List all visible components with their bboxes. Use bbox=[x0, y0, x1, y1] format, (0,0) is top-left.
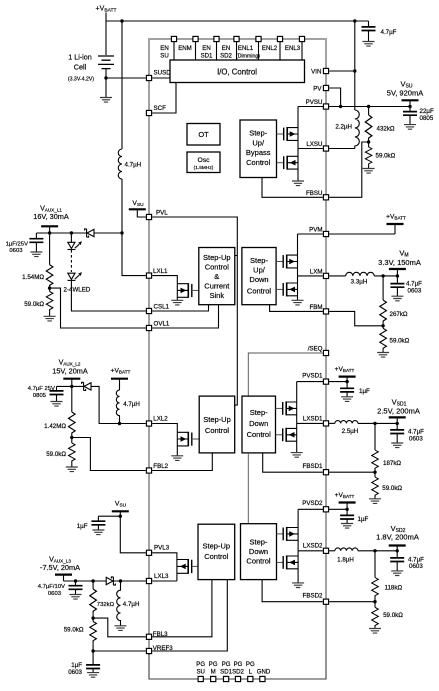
pin VREF3 bbox=[146, 648, 151, 653]
svg-text:Step-Up: Step-Up bbox=[203, 415, 231, 424]
pin ENL3 bbox=[299, 36, 304, 41]
svg-text:VIN: VIN bbox=[311, 69, 321, 76]
svg-text:PVM: PVM bbox=[309, 227, 322, 234]
resistor 59.0k (VM divider bottom) bbox=[382, 326, 384, 329]
junction VM divider tap bbox=[381, 274, 384, 277]
wire OVL1 feedback bbox=[50, 288, 146, 328]
svg-text:FBSD1: FBSD1 bbox=[303, 463, 324, 470]
junction FBM divider bbox=[381, 324, 384, 327]
svg-text:0603: 0603 bbox=[68, 669, 82, 676]
pin LXL1 bbox=[146, 273, 151, 278]
wire gate SU NMOS bbox=[277, 162, 284, 164]
wire gate M NMOS bbox=[276, 288, 283, 290]
svg-text:59.0kΩ: 59.0kΩ bbox=[383, 612, 403, 619]
LED D3 white LED string bottom bbox=[68, 272, 146, 311]
ground (1uF PVSD2) bbox=[341, 524, 353, 529]
svg-text:1µF: 1µF bbox=[77, 523, 88, 530]
svg-text:(Dimming): (Dimming) bbox=[236, 54, 260, 60]
svg-text:LXL1: LXL1 bbox=[153, 268, 168, 275]
svg-text:PG: PG bbox=[222, 661, 231, 668]
wire FBSU internal to control bbox=[262, 178, 323, 198]
resistor 59.0k (OVL1 divider bottom) bbox=[49, 288, 51, 291]
wire FBM feedback bbox=[329, 311, 383, 325]
pin FBSD1 bbox=[323, 470, 328, 475]
wire VIN bbox=[329, 70, 355, 72]
resistor 59.0k (VSD2 divider bottom) bbox=[374, 602, 376, 608]
wire LXSD1 internal bbox=[297, 422, 323, 424]
svg-text:1µF: 1µF bbox=[358, 516, 369, 523]
inductor 3.3uH (M) bbox=[346, 272, 374, 276]
junction FBL3 divider bbox=[91, 616, 94, 619]
junction VSD1 cap bbox=[396, 422, 399, 425]
wire VREF3 bbox=[93, 650, 146, 652]
transistor M NMOS (LXM-GND) bbox=[283, 276, 297, 300]
node VSD1 output terminal bbox=[389, 416, 406, 418]
wire PVL internal distribution bbox=[152, 217, 237, 405]
pin PG SU bbox=[198, 676, 203, 681]
svg-text:PVSD1: PVSD1 bbox=[302, 373, 323, 380]
svg-text:I/O, Control: I/O, Control bbox=[217, 68, 257, 77]
svg-text:Bypass: Bypass bbox=[246, 148, 271, 157]
wire pin ENL1 to I/O bbox=[258, 42, 260, 60]
wire LXM internal bbox=[298, 275, 323, 277]
svg-text:+VBATT: +VBATT bbox=[111, 368, 131, 375]
svg-text:+VBATT: +VBATT bbox=[335, 492, 355, 499]
capacitor 1uF 0603 (VREF3) bbox=[92, 651, 94, 673]
block Step-Down Control U-SD2 bbox=[241, 524, 277, 580]
svg-text:0805: 0805 bbox=[33, 393, 47, 399]
wire PVSU rail bbox=[298, 106, 410, 108]
svg-text:1.54MΩ: 1.54MΩ bbox=[22, 274, 44, 281]
svg-text:PG: PG bbox=[196, 661, 205, 668]
svg-text:2.5µH: 2.5µH bbox=[342, 428, 359, 435]
wire SUSD to battery return bbox=[106, 77, 146, 79]
wire PV to PVSU rail bbox=[329, 88, 340, 107]
wire FBL2 internal bbox=[152, 453, 212, 470]
ground (Q-L1 source) bbox=[171, 300, 183, 305]
svg-text:0603: 0603 bbox=[48, 591, 62, 597]
svg-text:118kΩ: 118kΩ bbox=[385, 585, 403, 592]
svg-text:Control: Control bbox=[247, 430, 272, 439]
svg-text:Down: Down bbox=[249, 547, 268, 556]
wire FBL3 internal bbox=[152, 580, 212, 637]
svg-text:16V, 30mA: 16V, 30mA bbox=[33, 212, 69, 221]
svg-text:(1.5MHz): (1.5MHz) bbox=[194, 165, 214, 171]
pin SUSD bbox=[146, 75, 151, 80]
svg-text:LXSD2: LXSD2 bbox=[303, 543, 323, 550]
svg-text:Step-Up: Step-Up bbox=[203, 542, 231, 551]
junction PV / PVSU rail bbox=[339, 105, 342, 108]
svg-text:PVSD2: PVSD2 bbox=[302, 500, 323, 507]
svg-text:732kΩ: 732kΩ bbox=[97, 602, 115, 608]
wire FBM internal to control bbox=[270, 305, 323, 311]
IC body outline (upper, gray) bbox=[149, 39, 326, 655]
svg-text:M: M bbox=[211, 669, 216, 676]
transistor Q-L1 NMOS (LED boost switch) bbox=[177, 283, 199, 300]
wire CSL1 internal bbox=[152, 305, 208, 311]
wire SUSD internal to I/O control bbox=[152, 77, 170, 79]
svg-text:FBM: FBM bbox=[309, 304, 322, 311]
junction FBL2 divider bbox=[70, 436, 73, 439]
capacitor 4.7uF 0603 (VSD2) bbox=[396, 551, 398, 571]
ground (1uF VREF3) bbox=[87, 673, 99, 678]
capacitor 4.7uF 25V 0805 (VAUX_L2) bbox=[56, 386, 58, 401]
svg-text:GND: GND bbox=[257, 669, 271, 676]
wire +VBATT top rail bbox=[106, 13, 369, 56]
svg-text:Step-: Step- bbox=[249, 129, 267, 138]
svg-text:4.7µH: 4.7µH bbox=[125, 162, 142, 169]
svg-text:0603: 0603 bbox=[9, 248, 23, 254]
pin ENM bbox=[193, 36, 198, 41]
ground (1uF PVSD1) bbox=[341, 397, 353, 402]
ground (VM divider) bbox=[377, 353, 389, 358]
node VM output terminal bbox=[389, 268, 406, 270]
svg-text:FBL2: FBL2 bbox=[153, 463, 168, 470]
svg-text:Sink: Sink bbox=[210, 291, 225, 300]
wire LXSU internal bbox=[298, 148, 323, 150]
pin ENL2 bbox=[277, 36, 282, 41]
svg-text:EN: EN bbox=[222, 45, 230, 52]
node VSD2 output terminal bbox=[389, 545, 406, 547]
wire VM output node bbox=[374, 275, 397, 277]
svg-text:SD1: SD1 bbox=[220, 669, 232, 676]
pin PVSU bbox=[323, 104, 328, 109]
wire OVL1 internal bbox=[152, 305, 218, 328]
svg-text:-7.5V, 20mA: -7.5V, 20mA bbox=[40, 563, 80, 572]
svg-text:(3.3V-4.2V): (3.3V-4.2V) bbox=[68, 77, 95, 83]
wire pin ENL3 to I/O bbox=[301, 42, 303, 60]
svg-text:3.3V, 150mA: 3.3V, 150mA bbox=[378, 258, 421, 267]
pin PVSD2 bbox=[323, 507, 328, 512]
transistor SD2 NMOS (LXSD2-GND) bbox=[283, 551, 298, 583]
svg-text:LXSU: LXSU bbox=[306, 141, 322, 148]
pin LXSU bbox=[323, 146, 328, 151]
junction OVL1 divider bbox=[48, 286, 51, 289]
capacitor 4.7uF/10V 0603 (VAUX_L3) bbox=[75, 581, 77, 595]
wire VAUX_L3 rail bbox=[64, 580, 107, 582]
wire gate SD2 NMOS bbox=[277, 561, 284, 563]
node VSU output terminal bbox=[402, 99, 419, 101]
transistor Q-L2 NMOS (L2 boost switch) bbox=[177, 432, 199, 456]
svg-text:Cell: Cell bbox=[74, 63, 87, 72]
svg-text:0603: 0603 bbox=[409, 435, 423, 442]
wire gate SD1 PMOS bbox=[276, 407, 283, 409]
svg-text:59.0kΩ: 59.0kΩ bbox=[382, 485, 402, 492]
ground (OVL1 divider) bbox=[44, 316, 56, 321]
svg-text:Control: Control bbox=[247, 287, 272, 296]
wire gate SU PMOS bbox=[277, 133, 284, 135]
pin VIN bbox=[323, 68, 328, 73]
pin FBL3 bbox=[146, 634, 151, 639]
ground (Q-L2 source) bbox=[171, 456, 183, 461]
transistor SD1 NMOS (LXSD1-GND) bbox=[283, 423, 297, 452]
svg-text:ENL2: ENL2 bbox=[262, 45, 278, 52]
junction VSD2 cap bbox=[396, 549, 399, 552]
pin LXSD1 bbox=[323, 421, 328, 426]
pin PG L bbox=[248, 676, 253, 681]
wire dashed LED string (2-4 WLED) bbox=[70, 250, 72, 272]
wire battery feed down right side bbox=[354, 21, 356, 110]
svg-text:Step-: Step- bbox=[250, 538, 268, 547]
transistor Q-L3 PMOS (inverting switch) bbox=[177, 559, 198, 581]
svg-text:1µF/25V: 1µF/25V bbox=[6, 241, 28, 247]
ground (FBL2 divider) bbox=[66, 467, 78, 472]
svg-text:PVL: PVL bbox=[156, 210, 168, 217]
svg-text:Step-Up: Step-Up bbox=[203, 253, 231, 262]
svg-text:59.0kΩ: 59.0kΩ bbox=[46, 451, 66, 458]
junction SUSD tap bbox=[104, 76, 107, 79]
resistor 59.0k (VSD1 divider bottom) bbox=[374, 472, 376, 477]
capacitor 1uF (PVSD1) bbox=[346, 382, 348, 397]
svg-text:Up/: Up/ bbox=[252, 138, 265, 147]
wire pin ENM to I/O bbox=[195, 42, 197, 60]
transistor M PMOS (PVM-LXM) bbox=[283, 234, 297, 276]
svg-text:4.7µH: 4.7µH bbox=[123, 401, 140, 408]
pin LXL2 bbox=[146, 421, 151, 426]
junction VAUX_L2 stem bbox=[70, 385, 73, 388]
junction 432k / PVSU rail bbox=[367, 105, 370, 108]
wire gate SD2 PMOS bbox=[277, 533, 284, 535]
svg-text:Current: Current bbox=[204, 282, 230, 291]
svg-text:1.42MΩ: 1.42MΩ bbox=[44, 423, 66, 430]
pin OVL1 bbox=[146, 325, 151, 330]
svg-text:59.0kΩ: 59.0kΩ bbox=[376, 153, 396, 160]
diode D4 schottky (VAUX_L2) bbox=[82, 382, 146, 423]
svg-text:SUSD: SUSD bbox=[154, 70, 172, 77]
svg-text:1 Li-ion: 1 Li-ion bbox=[68, 53, 92, 62]
svg-text:SD1: SD1 bbox=[201, 53, 213, 60]
svg-text:267kΩ: 267kΩ bbox=[390, 311, 408, 318]
svg-text:Step-: Step- bbox=[250, 256, 268, 265]
wire pin EN SD2 to I/O bbox=[236, 42, 238, 60]
svg-text:CSL1: CSL1 bbox=[154, 304, 170, 311]
wire LXL1 to internal FET bbox=[152, 276, 177, 284]
pin SCF bbox=[146, 110, 151, 115]
svg-text:LXL3: LXL3 bbox=[154, 573, 169, 580]
wire FBL2 feedback bbox=[72, 438, 146, 471]
pin GND bbox=[260, 676, 265, 681]
svg-text:1.8µH: 1.8µH bbox=[337, 556, 354, 563]
resistor 59.0k (FBL2 divider bottom) bbox=[71, 438, 73, 443]
svg-text:ENM: ENM bbox=[178, 45, 192, 52]
wire LXL3 internal bbox=[152, 580, 177, 582]
inductor 2.5uH (SD1) bbox=[335, 421, 358, 424]
junction diode / LXL1 feed bbox=[120, 231, 123, 234]
wire FBSD2 feedback bbox=[329, 601, 375, 603]
junction battery rail / VIN feed bbox=[353, 19, 356, 22]
wire sequence SD1 to SD2 bbox=[247, 453, 249, 524]
junction output cap / PVSU rail bbox=[408, 105, 411, 108]
wire VSD2 output node bbox=[358, 550, 397, 552]
ground (SD2 NMOS source) bbox=[292, 583, 304, 588]
wire FBL3 feedback bbox=[93, 618, 146, 637]
wire battery feed to inductor L (4.7uH) bbox=[121, 21, 123, 149]
svg-text:Down: Down bbox=[249, 419, 268, 428]
block Step-Down Control U-SD1 bbox=[242, 396, 276, 453]
pin PVL bbox=[146, 214, 151, 219]
pin PVSD1 bbox=[323, 379, 328, 384]
svg-text:OT: OT bbox=[198, 130, 209, 139]
svg-text:LXSD1: LXSD1 bbox=[303, 415, 323, 422]
junction VREF3 node bbox=[91, 649, 94, 652]
pin ENL1 (Dimming) bbox=[256, 36, 261, 41]
wire VAUX_L1 rail bbox=[36, 232, 86, 234]
svg-text:2.2µH: 2.2µH bbox=[335, 124, 352, 131]
wire FBSU feedback bbox=[329, 142, 368, 197]
svg-text:5V, 920mA: 5V, 920mA bbox=[387, 89, 423, 98]
wire LXSU bbox=[329, 148, 355, 150]
svg-text:Osc: Osc bbox=[197, 157, 210, 164]
svg-text:Control: Control bbox=[205, 263, 230, 272]
pin EN SD1 bbox=[214, 36, 219, 41]
junction PVSD2 cap bbox=[345, 508, 348, 511]
wire VAUX_L2 rail bbox=[57, 385, 84, 387]
capacitor 4.7uF 0603 (VM out) bbox=[396, 276, 398, 296]
pin LXM bbox=[323, 273, 328, 278]
svg-text:187kΩ: 187kΩ bbox=[383, 460, 401, 467]
inductor 4.7uH (L2 boost) bbox=[116, 390, 119, 423]
svg-text:0603: 0603 bbox=[409, 563, 423, 570]
ground (L3 inductor) bbox=[115, 626, 127, 631]
svg-text:Down: Down bbox=[249, 275, 268, 284]
wire FBSD2 internal bbox=[262, 580, 323, 602]
resistor 432k (VSU divider top) bbox=[368, 107, 370, 116]
resistor 267k (VM divider top) bbox=[382, 276, 384, 300]
svg-text:LXM: LXM bbox=[310, 268, 323, 275]
ground (22uF) bbox=[404, 125, 416, 130]
svg-text:PV: PV bbox=[313, 86, 322, 93]
svg-text:PG: PG bbox=[246, 661, 255, 668]
wire PVL stub to L1 control bbox=[235, 255, 237, 257]
ground (VSD2 divider) bbox=[369, 629, 381, 634]
wire gate SD1 NMOS bbox=[276, 434, 283, 436]
IC body outline (lower, thin) bbox=[149, 603, 326, 679]
svg-text:PVL3: PVL3 bbox=[154, 545, 170, 552]
wire VSU to PVL3 bbox=[98, 516, 145, 553]
resistor 59.0k (FBL3 divider bottom) bbox=[92, 618, 94, 621]
node VAUX_L3 terminal bbox=[55, 574, 72, 576]
resistor 1.42M (FBL2 divider top) bbox=[71, 386, 73, 412]
pin PVM bbox=[323, 231, 328, 236]
svg-text:22µF: 22µF bbox=[420, 108, 434, 115]
wire pin EN SD1 to I/O bbox=[216, 42, 218, 60]
diode D1 schottky (VAUX_L1) bbox=[85, 229, 122, 237]
svg-text:Control: Control bbox=[204, 552, 229, 561]
junction VAUX_L3 732k tap bbox=[91, 579, 94, 582]
junction VSD2 divider tap bbox=[373, 549, 376, 552]
ground (1uF PVL3) bbox=[92, 530, 104, 535]
svg-text:LXL2: LXL2 bbox=[153, 415, 168, 422]
junction VSU stem (PVL3) bbox=[119, 515, 122, 518]
svg-text:Control: Control bbox=[246, 158, 271, 167]
svg-text:4.7µF 25V: 4.7µF 25V bbox=[28, 386, 55, 392]
svg-text:ENL1: ENL1 bbox=[238, 45, 254, 52]
block Step-Up/Bypass Control U-SU bbox=[240, 120, 277, 178]
pin FBM bbox=[323, 309, 328, 314]
pin FBSD2 bbox=[323, 599, 328, 604]
pin LXSD2 bbox=[323, 548, 328, 553]
junction FBSD2 divider bbox=[373, 600, 376, 603]
junction battery rail / inductor feed bbox=[120, 19, 123, 22]
svg-text:1.8V, 200mA: 1.8V, 200mA bbox=[376, 532, 419, 541]
svg-text:SU: SU bbox=[160, 53, 168, 60]
pin EN SU bbox=[171, 36, 176, 41]
junction FBSU divider bbox=[367, 140, 370, 143]
pin PG SD2 bbox=[235, 676, 240, 681]
block Osc (1.5MHz) bbox=[187, 152, 220, 173]
svg-text:4.7µF: 4.7µF bbox=[381, 29, 397, 36]
junction VAUX_L1 stem bbox=[48, 231, 51, 234]
ground (M NMOS source) bbox=[292, 300, 304, 305]
wire FBSD1 internal bbox=[263, 453, 323, 472]
transistor SD2 PMOS (PVSD2-LXSD2) bbox=[283, 509, 298, 551]
svg-text:FBSD2: FBSD2 bbox=[303, 593, 324, 600]
wire FBSD1 feedback bbox=[329, 471, 375, 473]
wire LXL2 to internal FET bbox=[152, 424, 177, 433]
inductor 1.8uH (SD2) bbox=[335, 548, 358, 551]
ground (4.7uF/10V) bbox=[70, 595, 82, 600]
svg-text:SU: SU bbox=[196, 669, 204, 676]
junction LED string tap bbox=[70, 231, 73, 234]
junction PVSD1 cap bbox=[345, 380, 348, 383]
pin PG SD1 bbox=[224, 676, 229, 681]
ground (VSD2 cap) bbox=[391, 571, 403, 576]
wire LXSD2 to inductor bbox=[329, 550, 335, 552]
ground (4.7uF 25V) bbox=[51, 402, 63, 407]
resistor 118k (VSD2 divider top) bbox=[374, 551, 376, 578]
inductor 2.2uH (SU) bbox=[355, 110, 360, 149]
svg-text:2.5V, 200mA: 2.5V, 200mA bbox=[377, 406, 420, 415]
capacitor 1uF (PVL3 bypass) bbox=[97, 516, 99, 530]
svg-text:4.7µF/10V: 4.7µF/10V bbox=[38, 584, 65, 590]
wire LXM to inductor bbox=[329, 275, 346, 277]
svg-text:SD2: SD2 bbox=[232, 669, 244, 676]
svg-text:ENL3: ENL3 bbox=[285, 45, 301, 52]
wire VSD1 output node bbox=[358, 422, 397, 424]
svg-text:59.0kΩ: 59.0kΩ bbox=[64, 626, 84, 633]
junction VSD1 divider tap bbox=[373, 422, 376, 425]
wire gate M PMOS bbox=[276, 261, 283, 263]
wire LXSD1 to inductor bbox=[329, 422, 335, 424]
block Step-Up Control & Current Sink U-L1 bbox=[199, 248, 235, 305]
wire SCF to I/O control bbox=[152, 83, 176, 113]
svg-text:4.7µH: 4.7µH bbox=[123, 601, 140, 608]
block I/O, Control bbox=[170, 60, 305, 83]
junction diode / L3 inductor bbox=[119, 579, 122, 582]
resistor 732k (FBL3 divider top) bbox=[92, 581, 94, 589]
svg-text:Control: Control bbox=[246, 557, 271, 566]
wire LXSD2 internal bbox=[298, 550, 323, 552]
battery BT1 1 Li-ion cell bbox=[98, 56, 114, 97]
ground (input cap) bbox=[363, 42, 375, 47]
svg-text:59.0kΩ: 59.0kΩ bbox=[390, 338, 410, 345]
inductor 4.7uH (L3) bbox=[117, 581, 121, 626]
svg-text:Control: Control bbox=[205, 426, 230, 435]
capacitor 22uF 0805 (VSU out) bbox=[409, 107, 411, 125]
inductor 4.7uH (L1 boost) bbox=[118, 149, 122, 179]
wire /SEQ internal bbox=[248, 353, 322, 396]
pin EN SD2 bbox=[234, 36, 239, 41]
pin /SEQ bbox=[323, 350, 328, 355]
resistor 59.0k (VSU divider bottom) bbox=[368, 142, 370, 147]
svg-text:1µF: 1µF bbox=[359, 388, 370, 395]
svg-text:59.0kΩ: 59.0kΩ bbox=[24, 301, 44, 308]
capacitor 4.7uF 0603 (VSD1) bbox=[396, 423, 398, 443]
pin PV bbox=[323, 85, 328, 90]
block Step-Up/Down Control U-M bbox=[242, 248, 276, 305]
transistor SD1 PMOS (PVSD1-LXSD1) bbox=[283, 382, 297, 424]
svg-text:FBSU: FBSU bbox=[306, 190, 323, 197]
